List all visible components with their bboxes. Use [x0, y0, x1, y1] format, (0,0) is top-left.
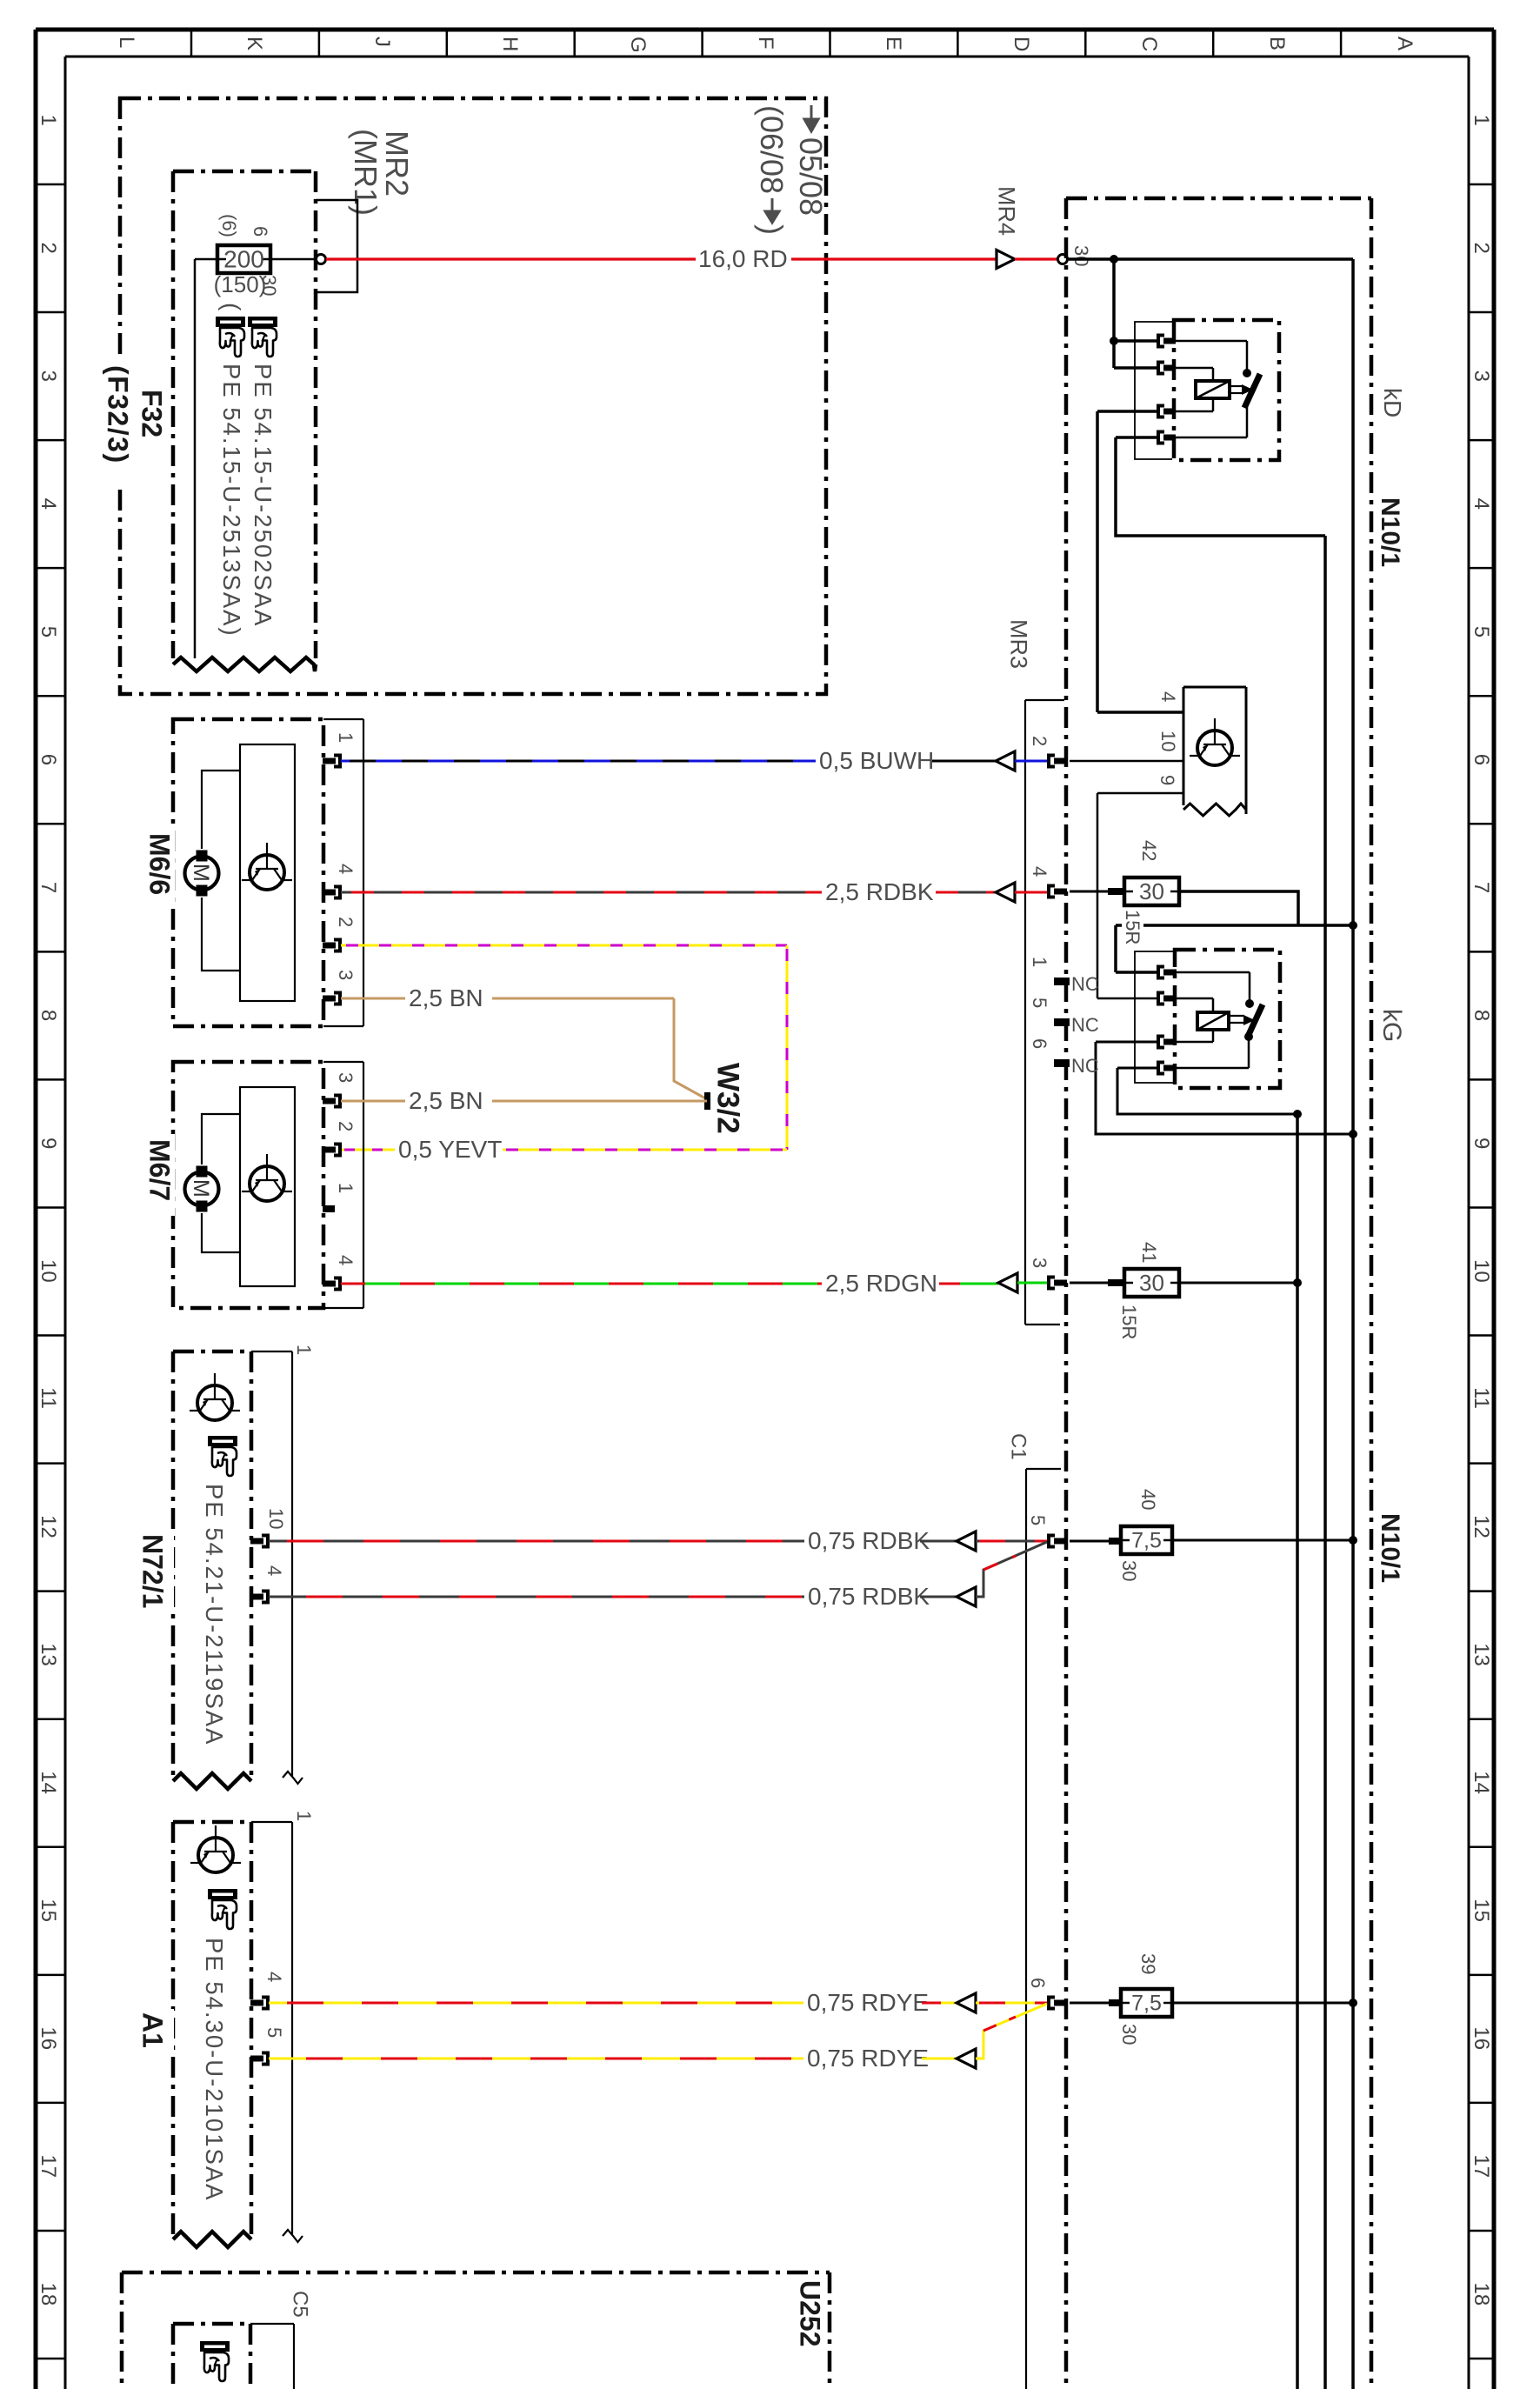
svg-text:L: L	[115, 37, 138, 48]
svg-text:0,75 RDBK: 0,75 RDBK	[808, 1583, 930, 1610]
svg-text:10: 10	[1470, 1259, 1493, 1283]
svg-text:E: E	[882, 37, 905, 50]
svg-text:PE 54.15-U-2513SAA): PE 54.15-U-2513SAA)	[218, 364, 245, 637]
connector bracket MR2 output	[316, 200, 357, 292]
svg-text:9: 9	[1157, 775, 1178, 785]
A1 pin 4	[250, 2000, 263, 2006]
svg-text:7,5: 7,5	[1131, 1529, 1162, 1553]
svg-text:2,5 RDBK: 2,5 RDBK	[825, 878, 934, 905]
svg-text:M6/7: M6/7	[143, 1139, 175, 1201]
svg-text:PE 54.30-U-2101SAA: PE 54.30-U-2101SAA	[201, 1938, 228, 2202]
wire transistor pin9 to relay kG pin2	[1097, 792, 1183, 795]
svg-text:4: 4	[37, 498, 60, 510]
M6/7 pin 3	[323, 1098, 336, 1104]
wire transistor pin10 from MR3 pin2	[1070, 760, 1183, 763]
A1 transistor	[198, 1838, 233, 1872]
svg-text:): )	[754, 224, 790, 235]
svg-text:N10/1: N10/1	[1376, 497, 1404, 567]
svg-text:6: 6	[250, 226, 271, 237]
svg-text:2: 2	[335, 1121, 357, 1131]
svg-text:1: 1	[1470, 115, 1493, 126]
svg-text:41: 41	[1138, 1242, 1160, 1263]
svg-text:kG: kG	[1377, 1009, 1406, 1042]
M6/6 pin 1	[323, 758, 336, 764]
wire 2,5 BN (M6/7 pin3)	[341, 1100, 405, 1103]
svg-text:PE 54.21-U-2119SAA: PE 54.21-U-2119SAA	[201, 1484, 228, 1745]
wire fuse41 to kG bus	[1179, 1282, 1297, 1285]
relay kD switch arm	[1244, 374, 1260, 408]
M6/7 pin 4	[323, 1281, 336, 1287]
svg-text:12: 12	[1470, 1515, 1493, 1538]
svg-text:42: 42	[1138, 840, 1160, 861]
control unit N72/1	[173, 1350, 251, 1354]
svg-text:8: 8	[37, 1010, 60, 1021]
bus wire kG output vertical	[1296, 1114, 1299, 2389]
svg-text:16: 16	[1470, 2026, 1493, 2050]
wire kG pin4 to bus kG-output	[1117, 1067, 1160, 1070]
svg-text:M: M	[189, 864, 213, 882]
svg-text:18: 18	[1470, 2282, 1493, 2306]
C1 pin 6	[1049, 1998, 1055, 2009]
svg-text:5: 5	[1470, 626, 1493, 637]
wire 0,5 YEVT loop M6/6 pin2 to M6/7 pin2	[341, 944, 787, 947]
svg-text:15: 15	[37, 1899, 60, 1922]
svg-text:16,0 RD: 16,0 RD	[698, 245, 788, 272]
M6/7 motor M	[185, 1172, 219, 1206]
svg-text:2: 2	[335, 917, 357, 927]
svg-text:(MR1): (MR1)	[348, 129, 383, 216]
wire 0,5 BUWH	[341, 760, 816, 763]
relay kD box	[1174, 320, 1279, 460]
M6/7 pin 2	[323, 1147, 336, 1153]
text → 05/08	[804, 105, 818, 131]
svg-text:14: 14	[1470, 1771, 1493, 1794]
svg-text:1: 1	[335, 732, 357, 743]
svg-text:30: 30	[258, 275, 280, 296]
svg-text:F32: F32	[136, 390, 167, 437]
svg-text:C1: C1	[1006, 1433, 1030, 1460]
svg-text:0,75 RDBK: 0,75 RDBK	[808, 1527, 930, 1554]
wire 2,5 RDBK	[341, 891, 822, 894]
label F32	[104, 361, 135, 487]
border frame	[36, 28, 1494, 32]
svg-text:9: 9	[1470, 1138, 1493, 1149]
relay kD wiring: pin2-coil, coil-pin3, pin4-contact	[1176, 367, 1213, 370]
svg-text:11: 11	[37, 1387, 60, 1409]
svg-text:11: 11	[1470, 1387, 1493, 1409]
wire 0,75 RDBK (pin10)	[269, 1540, 804, 1543]
svg-text:13: 13	[37, 1643, 60, 1666]
svg-text:MR3: MR3	[1005, 619, 1031, 669]
MR3 pin 5 NC	[1054, 1018, 1070, 1026]
svg-text:3: 3	[335, 970, 357, 980]
control unit box N10/1	[1066, 197, 1371, 201]
wire node30 to relay kD pins	[1112, 259, 1116, 368]
bus wire terminal30 vertical	[1351, 259, 1355, 2389]
svg-text:40: 40	[1137, 1489, 1159, 1510]
svg-text:(F32/3): (F32/3)	[102, 365, 133, 464]
transistor block in N10/1	[1183, 686, 1246, 689]
svg-text:3: 3	[1470, 370, 1493, 382]
wire 0,75 RDYE (pin5)	[269, 2058, 803, 2060]
M6/6 pin 3	[323, 996, 336, 1002]
svg-text:15R: 15R	[1122, 910, 1143, 944]
svg-text:17: 17	[37, 2154, 60, 2178]
svg-text:5: 5	[1027, 1515, 1049, 1525]
svg-text:4: 4	[263, 1565, 285, 1576]
M6/6 pin 2	[323, 943, 336, 949]
svg-text:0,75 RDYE: 0,75 RDYE	[807, 2045, 929, 2072]
motor unit M6/7	[173, 1062, 323, 1308]
wire 0,75 RDYE (pin4)	[269, 2002, 803, 2005]
svg-text:(: (	[218, 303, 245, 311]
svg-text:F: F	[754, 37, 777, 50]
component box MR2 relay module (inner)	[173, 170, 316, 174]
svg-text:NC: NC	[1071, 1014, 1099, 1036]
svg-text:30: 30	[1139, 1270, 1164, 1296]
svg-text:3: 3	[335, 1072, 357, 1083]
svg-text:30: 30	[1118, 2024, 1140, 2045]
svg-text:15: 15	[1470, 1899, 1493, 1922]
connector arrow MR4	[997, 250, 1015, 269]
A1 connector line	[291, 1822, 293, 2234]
instrument cluster A1	[173, 1820, 251, 1825]
component box F32 (fuse box)	[120, 98, 826, 694]
svg-text:4: 4	[1029, 866, 1050, 877]
svg-text:9: 9	[37, 1138, 60, 1149]
svg-text:6: 6	[1029, 1038, 1050, 1049]
N72/1 pin 10	[250, 1538, 263, 1545]
MR3 pin 1 NC	[1054, 978, 1070, 985]
svg-text:30: 30	[1118, 1560, 1140, 1581]
fuse 40 (7,5A)	[1070, 1540, 1110, 1543]
svg-text:1: 1	[293, 1345, 315, 1355]
svg-text:4: 4	[335, 864, 357, 874]
svg-text:W3/2: W3/2	[710, 1063, 744, 1134]
svg-text:2,5 RDGN: 2,5 RDGN	[825, 1270, 937, 1297]
A1 pin 5	[250, 2056, 263, 2062]
wire kD pin4 to bus kD-output	[1116, 436, 1160, 439]
relay kG socket outline	[1135, 951, 1173, 1083]
svg-text:10: 10	[1157, 731, 1179, 751]
svg-text:5: 5	[37, 626, 60, 637]
svg-text:39: 39	[1137, 1953, 1159, 1974]
svg-text:A1: A1	[137, 2012, 168, 2048]
svg-text:M6/6: M6/6	[143, 833, 175, 895]
C1 pin 5	[1049, 1536, 1055, 1547]
svg-text:2: 2	[37, 243, 60, 254]
inner box with hand (C5)	[173, 2322, 250, 2326]
svg-text:G: G	[626, 37, 650, 53]
svg-text:15R: 15R	[1118, 1305, 1140, 1339]
svg-text:0,5 BUWH: 0,5 BUWH	[819, 747, 934, 774]
wire fuse42 to bus + kG pin1	[1179, 891, 1298, 925]
svg-text:6: 6	[37, 754, 60, 765]
relay kD pins	[1158, 336, 1164, 347]
svg-text:MR2: MR2	[379, 130, 415, 197]
fuse 39 (7,5A)	[1070, 2002, 1110, 2005]
relay kD wiring: pin1 to switch pivot	[1176, 340, 1247, 343]
svg-text:4: 4	[263, 1972, 285, 1982]
svg-text:M: M	[189, 1179, 213, 1198]
svg-text:3: 3	[37, 370, 60, 382]
motor unit M6/6	[173, 719, 323, 1026]
N72/1 hand note	[208, 1436, 237, 1476]
N72/1 pin 4	[250, 1594, 263, 1600]
fuse 200A (F32 f6)	[195, 258, 217, 261]
svg-text:3: 3	[1029, 1258, 1050, 1268]
svg-text:A: A	[1393, 37, 1417, 50]
svg-text:N72/1: N72/1	[137, 1534, 168, 1608]
svg-text:13: 13	[1470, 1643, 1493, 1666]
svg-text:4: 4	[1470, 498, 1493, 510]
relay kG pins	[1158, 967, 1164, 978]
svg-text:C: C	[1137, 37, 1161, 51]
svg-text:4: 4	[335, 1255, 357, 1265]
wire kD pin3 down to transistor pin4	[1097, 410, 1160, 413]
svg-text:1: 1	[335, 1183, 357, 1193]
svg-text:D: D	[1010, 37, 1033, 51]
svg-text:K: K	[243, 37, 266, 50]
ground point W3/2	[704, 1092, 710, 1110]
svg-text:0,5 YEVT: 0,5 YEVT	[398, 1136, 502, 1163]
relay kG wiring: pin1 to pivot	[1177, 971, 1250, 974]
svg-text:NC: NC	[1071, 973, 1099, 995]
svg-text:1: 1	[293, 1811, 315, 1821]
connector MR3	[1024, 700, 1026, 1325]
MR3 pin 6 NC	[1054, 1059, 1070, 1067]
M6/7 inner unit	[240, 1087, 295, 1286]
wire 2,5 BN (M6/6 pin3)	[341, 998, 405, 1000]
bus wire kD output vertical	[1323, 536, 1327, 2389]
MR3 pin 4	[1049, 886, 1055, 898]
M6/7 connector line	[363, 1062, 364, 1308]
svg-text:J: J	[370, 37, 394, 47]
wire kG pin3 to bus 30	[1096, 1041, 1160, 1044]
svg-text:N10/1: N10/1	[1376, 1513, 1404, 1583]
M6/6 inner unit	[240, 744, 295, 1001]
relay kG coil	[1197, 1012, 1229, 1030]
svg-text:16: 16	[37, 2026, 60, 2050]
svg-text:12: 12	[37, 1515, 60, 1538]
svg-text:30: 30	[1139, 878, 1164, 904]
svg-text:NC: NC	[1071, 1055, 1099, 1077]
relay kD socket outline	[1135, 322, 1172, 459]
fuse 41 (30A)	[1070, 1282, 1110, 1285]
svg-text:7,5: 7,5	[1131, 1992, 1162, 2016]
svg-text:10: 10	[37, 1259, 60, 1283]
MR3 pin 3	[1049, 1278, 1055, 1289]
MR3 pin 2	[1049, 756, 1055, 767]
svg-text:05/08: 05/08	[793, 137, 829, 216]
relay kG box	[1175, 950, 1280, 1088]
M6/7 pin 1 (nc stub)	[323, 1205, 335, 1212]
svg-text:(06/08: (06/08	[754, 105, 790, 194]
connector C5	[293, 2324, 295, 2389]
svg-text:7: 7	[37, 882, 60, 893]
wire 2,5 RDGN	[341, 1283, 822, 1285]
wire 16,0 RD fuse200 to N10/1 terminal30	[270, 258, 317, 261]
wire node30 to bus	[1067, 257, 1353, 261]
component box U252	[122, 2271, 830, 2275]
wire 0,75 RDBK (pin4)	[269, 1596, 804, 1598]
svg-text:PE 54.15-U-2502SAA: PE 54.15-U-2502SAA	[250, 364, 277, 628]
svg-text:18: 18	[37, 2282, 60, 2306]
svg-text:10: 10	[265, 1508, 287, 1529]
svg-text:2,5 BN: 2,5 BN	[409, 984, 483, 1011]
A1 hand note	[208, 1889, 237, 1929]
M6/6 connector line	[363, 719, 364, 1026]
connector C1	[1025, 1469, 1027, 2389]
svg-text:2,5 BN: 2,5 BN	[409, 1087, 483, 1114]
svg-text:8: 8	[1470, 1010, 1493, 1021]
svg-text:MR4: MR4	[993, 186, 1019, 236]
svg-text:1: 1	[1029, 957, 1050, 967]
svg-text:7: 7	[1470, 882, 1493, 893]
M6/7 transistor	[250, 1166, 284, 1201]
svg-text:H: H	[498, 37, 522, 51]
svg-text:kD: kD	[1379, 388, 1406, 417]
svg-text:C5: C5	[288, 2291, 311, 2318]
svg-text:30: 30	[1070, 245, 1092, 266]
svg-text:5: 5	[263, 2027, 285, 2038]
relay kG wiring	[1177, 998, 1213, 1000]
svg-text:2: 2	[1029, 736, 1050, 746]
M6/6 motor M	[185, 857, 219, 891]
svg-text:6: 6	[1470, 754, 1493, 765]
fuse 42 (30A)	[1070, 891, 1110, 893]
svg-text:4: 4	[1157, 691, 1179, 702]
svg-text:B: B	[1265, 37, 1289, 50]
svg-text:0,75 RDYE: 0,75 RDYE	[807, 1989, 929, 2016]
M6/6 pin 4	[323, 890, 336, 896]
M6/6 transistor	[250, 855, 284, 890]
relay kD coil	[1196, 381, 1230, 398]
svg-text:14: 14	[37, 1771, 60, 1794]
svg-text:1: 1	[37, 115, 60, 126]
svg-text:5: 5	[1029, 998, 1050, 1008]
svg-text:6: 6	[1027, 1978, 1049, 1988]
svg-text:(6): (6)	[218, 214, 240, 237]
relay kG switch arm	[1247, 1004, 1263, 1038]
N72/1 connector line	[291, 1351, 293, 1776]
svg-text:17: 17	[1470, 2154, 1493, 2178]
svg-text:U252: U252	[794, 2280, 825, 2347]
svg-text:200: 200	[223, 246, 264, 273]
N72/1 transistor	[197, 1385, 232, 1420]
svg-text:2: 2	[1470, 243, 1493, 254]
